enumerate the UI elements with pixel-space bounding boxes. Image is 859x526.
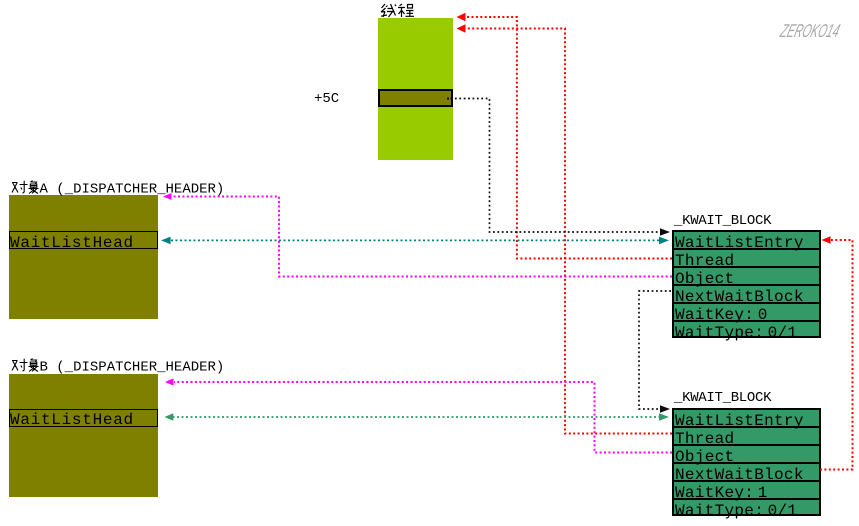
wire: black +5C -> table1 top xyxy=(451,99,660,233)
object B box (_DISPATCHER_HEADER) xyxy=(9,374,158,497)
KWAIT_BLOCK table 1 row texts xyxy=(675,236,804,250)
wire: magenta table1.Object -> object A header xyxy=(172,197,672,277)
arrowhead green right at table2 xyxy=(659,413,669,420)
arrowhead black at table1 xyxy=(660,228,670,236)
object A box (_DISPATCHER_HEADER) xyxy=(9,195,158,319)
label +5C xyxy=(314,93,339,106)
wire: magenta table2.Object -> object B header xyxy=(174,382,672,453)
svg-text:A (_DISPATCHER_HEADER): A (_DISPATCHER_HEADER) xyxy=(40,182,225,198)
label 线程 (thread) glyphs xyxy=(381,4,414,17)
thread +5C row xyxy=(378,89,453,107)
KWAIT_BLOCK table 2 xyxy=(672,408,821,516)
KWAIT_BLOCK table 1 xyxy=(672,230,821,338)
arrowhead magenta at object B xyxy=(165,378,174,385)
arrowhead teal left at object A xyxy=(161,237,171,245)
arrowhead teal right at table1 xyxy=(659,237,669,245)
label 对象A (_DISPATCHER_HEADER) xyxy=(12,181,39,194)
arrowhead green left at object B xyxy=(165,413,174,420)
KWAIT_BLOCK table 2 title xyxy=(674,392,771,405)
thread box (线程) xyxy=(378,18,453,160)
wire: teal objectA.WaitListHead <-> table1.WaitListEntry xyxy=(171,239,660,241)
svg-text:B (_DISPATCHER_HEADER): B (_DISPATCHER_HEADER) xyxy=(40,360,225,376)
wire: red table2.Thread -> thread box (+arrowhead) xyxy=(466,29,672,434)
watermark ZEROKO14 xyxy=(779,24,841,38)
wire: red table1.Thread -> thread box (+arrowhead) xyxy=(466,17,672,259)
node: dot inside +5C row xyxy=(447,98,449,100)
arrowhead black at table2 xyxy=(660,405,670,413)
arrowhead magenta at object A xyxy=(163,193,172,200)
arrowhead red at thread (second) xyxy=(457,24,466,32)
object B WaitListHead text xyxy=(10,413,134,427)
label 对象B (_DISPATCHER_HEADER) xyxy=(12,359,39,372)
KWAIT_BLOCK table 1 title xyxy=(674,215,771,228)
wire: black table1.NextWaitBlock -> table2 top xyxy=(639,291,671,409)
KWAIT_BLOCK table 2 row texts xyxy=(675,414,804,428)
object A WaitListHead row xyxy=(9,231,158,249)
object A WaitListHead text xyxy=(10,236,134,250)
arrowhead red at thread (top) xyxy=(457,13,466,21)
wire: red table2.NextWaitBlock -> table1.WaitListEntry right side xyxy=(820,240,853,470)
wire: green objectB.WaitListHead <-> table2.WaitListEntry xyxy=(173,416,661,418)
arrowhead red at table1 right xyxy=(822,236,831,243)
object B WaitListHead row xyxy=(9,409,158,427)
